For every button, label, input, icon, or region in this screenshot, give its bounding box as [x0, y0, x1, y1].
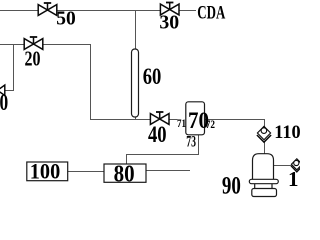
svg-text:30: 30	[159, 12, 179, 34]
wire tube60 bottom stub	[135, 117, 137, 121]
chamber 70	[186, 102, 205, 135]
svg-text:60: 60	[143, 64, 162, 89]
wire box80 right stub	[146, 170, 190, 172]
svg-text:80: 80	[114, 161, 135, 187]
svg-text:10: 10	[0, 90, 8, 115]
svg-text:73: 73	[186, 134, 196, 151]
wire filter 110 to vessel 90	[264, 142, 266, 155]
vessel 90 neck	[254, 184, 256, 189]
valve 50	[38, 3, 57, 15]
wire vertical x89	[90, 44, 92, 120]
svg-text:20: 20	[25, 47, 41, 71]
svg-text:50: 50	[56, 8, 75, 30]
wire top pipe left of valve 50	[0, 10, 39, 12]
svg-text:71: 71	[177, 116, 186, 130]
wire down into box 80	[126, 154, 128, 164]
box 100	[27, 162, 68, 181]
svg-text:72: 72	[206, 117, 215, 131]
svg-text:1: 1	[288, 167, 299, 191]
wire valve30 to CDA	[179, 10, 196, 12]
symbol 120 (cut at right edge)	[291, 159, 303, 172]
vessel 90 dome cylinder	[253, 154, 274, 180]
wire top pipe valve50 to valve30	[57, 10, 161, 12]
vessel 90 flange	[249, 179, 278, 183]
wire second pipe left of valve 20	[0, 44, 25, 46]
svg-text:90: 90	[222, 173, 241, 200]
wire nozzle 10 stub	[5, 90, 15, 92]
nozzle 10 (cut at left edge)	[0, 85, 5, 96]
svg-text:CDA: CDA	[197, 4, 225, 24]
tube 60	[132, 49, 139, 117]
valve 40	[150, 112, 169, 124]
wire horizontal y154	[126, 154, 199, 156]
vessel 90 base	[252, 189, 277, 197]
valve 20	[24, 37, 43, 49]
wire valve40 to port 71	[169, 119, 178, 121]
svg-text:100: 100	[30, 159, 60, 184]
wire box100 to box80	[68, 171, 104, 173]
wire elbow down to filter 110	[264, 119, 266, 127]
svg-text:40: 40	[148, 122, 167, 147]
box 80	[104, 164, 146, 182]
valve 30	[160, 3, 179, 15]
wire port 73 down	[198, 135, 200, 156]
wire port 72 to elbow	[205, 119, 265, 121]
filter 110	[257, 126, 271, 142]
wire drop to nozzle 10	[13, 44, 15, 91]
svg-text:110: 110	[274, 122, 300, 143]
wire valve20 to elbow	[43, 44, 91, 46]
wire bottom pipe to valve 40	[90, 119, 151, 121]
wire vessel90 to symbol 120	[274, 165, 292, 167]
wire drop from top pipe to tube 60	[135, 10, 137, 50]
